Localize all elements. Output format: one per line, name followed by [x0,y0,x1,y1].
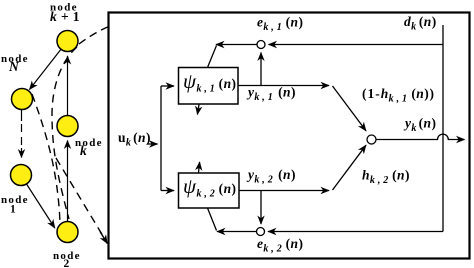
svg-text:yk,2(n): yk,2(n) [246,167,296,186]
svg-text:uk(n): uk(n) [118,130,151,149]
svg-text:yk(n): yk(n) [403,116,436,135]
svg-text:hk,2(n): hk,2(n) [362,168,410,187]
svg-text:1: 1 [10,204,16,216]
svg-text:dk(n): dk(n) [404,14,437,33]
svg-text:(1-hk,1(n)): (1-hk,1(n)) [362,86,435,105]
svg-text:yk,1(n): yk,1(n) [246,85,296,104]
svg-text:k: k [80,143,87,158]
svg-text:N: N [8,59,20,74]
svg-text:ek,1(n): ek,1(n) [257,15,303,34]
svg-text:ek,2(n): ek,2(n) [257,236,303,255]
svg-text:k + 1: k + 1 [50,9,80,24]
svg-text:2: 2 [64,258,70,268]
